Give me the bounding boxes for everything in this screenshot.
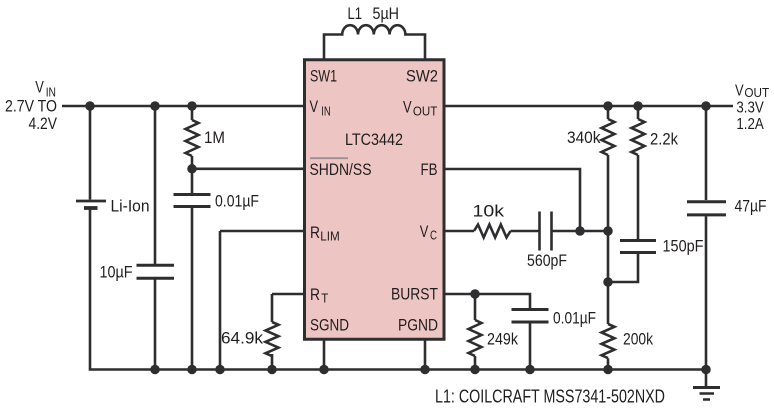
svg-text:0.01µF: 0.01µF bbox=[553, 309, 596, 328]
svg-text:C: C bbox=[430, 229, 437, 243]
svg-text:LIM: LIM bbox=[320, 229, 340, 243]
svg-text:SGND: SGND bbox=[310, 316, 349, 335]
svg-text:560pF: 560pF bbox=[527, 251, 567, 270]
svg-text:V: V bbox=[735, 83, 744, 100]
svg-text:L1: L1 bbox=[348, 4, 363, 23]
svg-text:V: V bbox=[420, 222, 429, 241]
svg-text:L1: COILCRAFT MSS7341-502NXD: L1: COILCRAFT MSS7341-502NXD bbox=[435, 386, 665, 406]
svg-text:OUT: OUT bbox=[744, 86, 769, 100]
svg-text:R: R bbox=[310, 223, 320, 242]
svg-text:10k: 10k bbox=[473, 202, 505, 221]
svg-text:IN: IN bbox=[321, 104, 331, 118]
svg-text:PGND: PGND bbox=[398, 316, 438, 335]
svg-text:V: V bbox=[403, 97, 412, 116]
svg-text:Li-Ion: Li-Ion bbox=[111, 197, 150, 216]
svg-text:340k: 340k bbox=[567, 128, 601, 147]
svg-text:2.7V TO: 2.7V TO bbox=[5, 97, 57, 116]
svg-text:47µF: 47µF bbox=[735, 197, 767, 216]
svg-text:64.9k: 64.9k bbox=[221, 329, 263, 348]
svg-text:OUT: OUT bbox=[413, 105, 438, 119]
svg-text:LTC3442: LTC3442 bbox=[345, 130, 403, 149]
svg-text:10µF: 10µF bbox=[100, 263, 133, 282]
svg-text:R: R bbox=[310, 285, 320, 304]
svg-text:5µH: 5µH bbox=[373, 4, 400, 23]
svg-text:1.2A: 1.2A bbox=[736, 116, 764, 133]
svg-text:T: T bbox=[321, 291, 328, 305]
svg-text:SHDN/SS: SHDN/SS bbox=[310, 160, 372, 179]
svg-text:SW2: SW2 bbox=[406, 67, 438, 86]
svg-text:V: V bbox=[310, 97, 319, 116]
svg-text:BURST: BURST bbox=[391, 285, 438, 304]
svg-text:200k: 200k bbox=[623, 330, 653, 349]
svg-text:V: V bbox=[35, 78, 44, 97]
svg-text:FB: FB bbox=[421, 160, 438, 179]
svg-text:3.3V: 3.3V bbox=[736, 100, 764, 117]
svg-text:2.2k: 2.2k bbox=[650, 130, 678, 149]
svg-text:0.01µF: 0.01µF bbox=[215, 192, 259, 211]
svg-text:SW1: SW1 bbox=[310, 67, 337, 86]
svg-text:4.2V: 4.2V bbox=[29, 114, 58, 133]
svg-text:1M: 1M bbox=[204, 128, 225, 147]
svg-text:249k: 249k bbox=[487, 330, 518, 349]
svg-text:150pF: 150pF bbox=[663, 237, 704, 256]
